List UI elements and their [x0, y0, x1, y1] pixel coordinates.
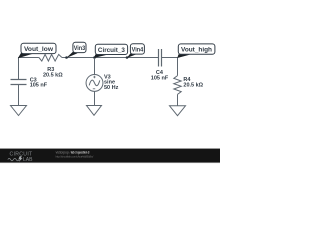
- wire V3 to ground: [94, 91, 96, 105]
- svg-text:20.5 kΩ: 20.5 kΩ: [43, 73, 63, 79]
- svg-text:20.5 kΩ: 20.5 kΩ: [183, 82, 203, 88]
- svg-text:Vout_high: Vout_high: [181, 48, 212, 54]
- svg-text:http://circuitlab.com/c/kua4dd: http://circuitlab.com/c/kua4dd85d6u/: [56, 155, 94, 159]
- svg-text:Vin4: Vin4: [132, 48, 144, 54]
- wire top-left segment: [19, 57, 39, 59]
- footer logo CircuitLab: [8, 151, 33, 163]
- wire R4 top: [177, 57, 179, 76]
- svg-text:50 Hz: 50 Hz: [104, 85, 119, 91]
- wire middle segment: [62, 57, 159, 59]
- svg-text:105 nF: 105 nF: [151, 75, 169, 81]
- flag Vin4: [127, 44, 145, 58]
- footer credit text: [56, 151, 94, 159]
- wire left vertical: [18, 57, 20, 80]
- resistor R4: [174, 76, 204, 95]
- svg-text:Vin3: Vin3: [74, 46, 86, 52]
- svg-text:LAB: LAB: [23, 157, 33, 163]
- ground V3: [87, 106, 102, 116]
- svg-text:Circuit_3: Circuit_3: [98, 48, 126, 54]
- node junction V3: [93, 56, 96, 59]
- wire V3 top: [94, 58, 96, 75]
- wire top-right segment: [162, 57, 178, 59]
- flag Vout_high: [177, 44, 215, 58]
- ground left: [11, 106, 27, 116]
- ground right: [170, 106, 186, 116]
- resistor R3: [39, 54, 63, 78]
- wire R4 to ground: [177, 94, 179, 105]
- capacitor C4: [151, 49, 169, 81]
- voltage source V3: [86, 74, 119, 91]
- capacitor C3: [11, 78, 48, 89]
- flag Vin3: [66, 42, 86, 58]
- flag Vout_low: [18, 43, 56, 58]
- svg-text:105 nF: 105 nF: [30, 83, 48, 89]
- footer bar: [0, 148, 220, 163]
- flag Circuit_3: [94, 44, 128, 58]
- wire C3 to ground: [18, 85, 20, 106]
- node anchor Vin4: [126, 56, 129, 59]
- node anchor Vin3: [65, 56, 68, 59]
- svg-text:Vout_low: Vout_low: [24, 47, 53, 53]
